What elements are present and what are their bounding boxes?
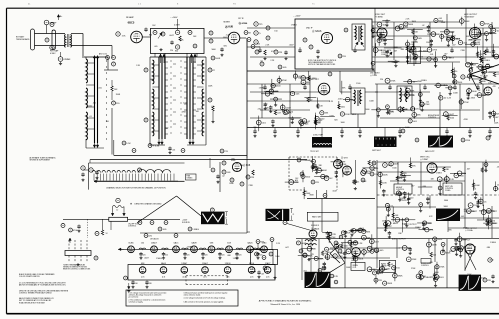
svg-text:Ⓐ 6AU6: Ⓐ 6AU6 — [312, 29, 322, 33]
svg-text:A PHOTOFACT STANDARD NOTATI: A PHOTOFACT STANDARD NOTATION SCHEMATIC — [259, 300, 312, 303]
svg-text:100K: 100K — [383, 174, 388, 176]
svg-text:390K: 390K — [398, 276, 403, 278]
svg-text:25: 25 — [225, 217, 227, 219]
svg-text:470K: 470K — [282, 80, 287, 82]
svg-text:680: 680 — [351, 260, 354, 262]
svg-text:33K: 33K — [324, 113, 328, 115]
svg-text:4.5MH: 4.5MH — [174, 25, 180, 27]
svg-text:220: 220 — [170, 50, 173, 52]
svg-text:270K: 270K — [411, 268, 416, 270]
svg-text:220: 220 — [260, 255, 263, 257]
svg-text:1 MEG: 1 MEG — [291, 25, 297, 27]
svg-text:2 MEG: 2 MEG — [445, 190, 451, 192]
svg-text:.0047: .0047 — [332, 190, 337, 192]
svg-text:2.2K: 2.2K — [450, 179, 455, 181]
svg-text:(4.7): (4.7) — [250, 277, 254, 279]
svg-text:←+140V: ←+140V — [293, 16, 301, 18]
svg-text:4.5MC: 4.5MC — [50, 53, 56, 55]
svg-text:68K: 68K — [436, 34, 440, 36]
svg-text:SOURCE: SOURCE — [182, 222, 190, 224]
svg-text:RATIO DET: RATIO DET — [312, 216, 322, 219]
svg-text:5600: 5600 — [444, 206, 448, 208]
svg-text:680: 680 — [319, 120, 322, 122]
svg-text:6AU8: 6AU8 — [161, 262, 166, 265]
svg-text:RF AMP: RF AMP — [126, 16, 134, 19]
svg-text:VIEWED IN SERVICE POSITION: VIEWED IN SERVICE POSITION — [63, 267, 88, 269]
svg-text:470K: 470K — [471, 97, 476, 99]
svg-text:1000: 1000 — [468, 248, 472, 250]
svg-text:150: 150 — [141, 243, 144, 245]
svg-text:CHANNEL SELECTOR SWITCH SHOWN: CHANNEL SELECTOR SWITCH SHOWN IN CHANNEL… — [106, 187, 166, 190]
svg-text:150: 150 — [257, 43, 260, 45]
svg-text:.047: .047 — [393, 51, 397, 53]
svg-text:CONTROL: CONTROL — [428, 117, 436, 119]
svg-text:1000: 1000 — [275, 256, 279, 258]
svg-text:470K: 470K — [464, 119, 469, 121]
svg-text:68K: 68K — [411, 90, 415, 92]
svg-text:100K: 100K — [322, 170, 327, 172]
svg-text:(4.7): (4.7) — [266, 277, 270, 279]
svg-text:.005: .005 — [154, 46, 158, 48]
svg-text:47K: 47K — [279, 52, 283, 54]
svg-text:1500: 1500 — [382, 221, 386, 223]
svg-text:1500: 1500 — [426, 42, 430, 44]
svg-text:220: 220 — [222, 255, 225, 257]
svg-text:120K: 120K — [329, 249, 334, 251]
svg-text:.0047: .0047 — [286, 107, 292, 109]
svg-text:390K: 390K — [449, 251, 454, 253]
svg-text:150: 150 — [274, 31, 277, 33]
svg-text:120K: 120K — [468, 39, 473, 41]
svg-text:1000: 1000 — [423, 51, 427, 53]
svg-text:.0047: .0047 — [289, 44, 294, 46]
svg-text:470K: 470K — [463, 228, 468, 230]
svg-text:47K: 47K — [288, 112, 292, 114]
svg-text:1 MEG: 1 MEG — [233, 258, 239, 260]
svg-text:TERM BOARD: TERM BOARD — [16, 38, 30, 41]
svg-text:HORIZ OUT: HORIZ OUT — [461, 240, 470, 242]
svg-text:220: 220 — [187, 255, 190, 257]
svg-text:.005: .005 — [172, 150, 175, 152]
svg-text:12AU7: 12AU7 — [202, 262, 208, 265]
svg-text:.005: .005 — [98, 87, 102, 89]
svg-text:NOTE: THE ELECTROLYTIC UNITS I: NOTE: THE ELECTROLYTIC UNITS IN — [308, 60, 337, 62]
svg-text:680: 680 — [327, 252, 330, 254]
svg-text:100: 100 — [135, 283, 138, 285]
svg-text:150: 150 — [490, 259, 493, 261]
svg-text:1 MEG: 1 MEG — [310, 78, 317, 80]
svg-text:100K: 100K — [394, 164, 399, 166]
svg-text:.047: .047 — [261, 274, 264, 276]
svg-text:470K: 470K — [264, 107, 269, 109]
svg-text:820: 820 — [486, 64, 489, 66]
svg-text:680: 680 — [487, 247, 490, 249]
svg-text:390K: 390K — [387, 283, 392, 285]
svg-text:.02: .02 — [260, 61, 263, 63]
svg-text:6CB6: 6CB6 — [128, 243, 134, 245]
svg-text:390K: 390K — [475, 44, 480, 46]
svg-text:1 MEG: 1 MEG — [484, 60, 491, 62]
svg-text:100K: 100K — [453, 92, 458, 94]
svg-text:680: 680 — [240, 165, 243, 167]
svg-text:.047: .047 — [411, 185, 415, 187]
svg-text:.01: .01 — [211, 106, 214, 108]
svg-text:1 MEG: 1 MEG — [192, 229, 199, 231]
svg-text:©Howard W. Sams & Co., Inc. 19: ©Howard W. Sams & Co., Inc. 1956 — [270, 303, 300, 306]
svg-text:.02: .02 — [478, 90, 481, 92]
svg-text:820: 820 — [473, 189, 476, 191]
svg-text:1 MEG: 1 MEG — [454, 38, 461, 40]
svg-text:220: 220 — [205, 255, 208, 257]
svg-text:TUNING: TUNING — [187, 177, 194, 179]
svg-text:820: 820 — [253, 127, 256, 129]
svg-text:12K: 12K — [334, 276, 338, 278]
svg-text:.0047: .0047 — [223, 37, 228, 39]
svg-text:1 MEG: 1 MEG — [259, 88, 265, 90]
svg-text:6AU8: 6AU8 — [191, 242, 197, 245]
svg-text:(4.7): (4.7) — [141, 277, 145, 279]
svg-text:.047: .047 — [452, 45, 456, 47]
svg-text:1ST IF: 1ST IF — [238, 18, 244, 20]
svg-text:1500: 1500 — [88, 105, 92, 107]
svg-text:100K: 100K — [215, 58, 220, 60]
svg-text:330: 330 — [149, 283, 152, 285]
svg-text:.01: .01 — [89, 116, 92, 118]
svg-text:2ND VIDEO: 2ND VIDEO — [370, 73, 380, 75]
svg-text:100K: 100K — [358, 259, 363, 261]
svg-text:120K: 120K — [412, 259, 417, 261]
svg-text:120K: 120K — [342, 164, 347, 166]
svg-text:1500: 1500 — [392, 167, 396, 169]
svg-text:.0047: .0047 — [144, 257, 149, 259]
svg-text:.0047: .0047 — [343, 246, 349, 248]
svg-text:CONTROL: CONTROL — [396, 189, 404, 191]
svg-text:5600: 5600 — [211, 49, 215, 51]
svg-text:HORIZ: HORIZ — [381, 263, 386, 265]
svg-text:.001: .001 — [430, 54, 434, 56]
svg-text:220: 220 — [165, 255, 168, 257]
svg-text:22K: 22K — [332, 234, 336, 236]
svg-text:150: 150 — [165, 98, 168, 100]
svg-text:1 MEG: 1 MEG — [424, 277, 431, 279]
svg-text:1000: 1000 — [340, 122, 344, 124]
svg-text:21: 21 — [293, 214, 295, 216]
svg-text:1 MEG: 1 MEG — [436, 173, 442, 175]
svg-text:470K: 470K — [391, 81, 396, 83]
svg-text:2.2K: 2.2K — [358, 243, 363, 245]
svg-text:1 MEG: 1 MEG — [187, 247, 193, 249]
svg-text:150: 150 — [447, 57, 450, 59]
svg-text:150: 150 — [106, 121, 109, 123]
svg-text:150: 150 — [426, 101, 429, 103]
svg-text:390K: 390K — [179, 39, 184, 41]
svg-text:6AQ5: 6AQ5 — [247, 242, 253, 245]
svg-text:220: 220 — [380, 79, 383, 81]
svg-text:.047: .047 — [495, 117, 499, 119]
svg-text:820: 820 — [334, 120, 337, 122]
svg-text:AUDIO OUTPUT: AUDIO OUTPUT — [392, 238, 406, 241]
svg-text:.01: .01 — [151, 80, 154, 82]
svg-text:12: 12 — [116, 210, 118, 212]
svg-text:(4.7): (4.7) — [162, 277, 166, 279]
svg-text:.047: .047 — [165, 128, 169, 130]
svg-text:1500: 1500 — [356, 83, 360, 85]
svg-text:470K: 470K — [485, 23, 490, 25]
svg-text:220: 220 — [258, 108, 261, 110]
svg-text:100K: 100K — [346, 267, 351, 269]
svg-text:820: 820 — [224, 45, 227, 47]
svg-text:1000: 1000 — [405, 127, 409, 129]
svg-text:100K: 100K — [475, 185, 480, 187]
svg-text:.0047: .0047 — [480, 277, 485, 279]
svg-text:.0047: .0047 — [449, 114, 455, 116]
svg-text:68K: 68K — [366, 231, 370, 233]
svg-text:.047: .047 — [346, 172, 350, 174]
svg-text:SHOWN IN SUPPLEMENT: SHOWN IN SUPPLEMENT — [30, 160, 51, 162]
svg-text:390K: 390K — [441, 22, 446, 24]
svg-text:390K: 390K — [417, 81, 422, 83]
svg-text:CONTROL: CONTROL — [421, 265, 429, 267]
svg-text:220: 220 — [239, 255, 242, 257]
svg-text:DENOTES CHASSIS GROUND: DENOTES CHASSIS GROUND — [135, 203, 163, 206]
svg-text:1 MEG: 1 MEG — [415, 227, 421, 229]
svg-text:390K: 390K — [116, 94, 121, 96]
svg-text:390K: 390K — [231, 160, 236, 162]
svg-text:220: 220 — [143, 255, 146, 257]
svg-text:.0047: .0047 — [301, 243, 307, 245]
svg-text:6BC5: 6BC5 — [128, 21, 135, 25]
svg-text:.001: .001 — [92, 102, 96, 104]
svg-text:68K: 68K — [417, 115, 421, 117]
svg-text:390K: 390K — [465, 21, 470, 23]
svg-text:.02: .02 — [422, 25, 425, 27]
svg-text:1 MEG: 1 MEG — [156, 258, 162, 260]
svg-text:5600: 5600 — [365, 109, 369, 111]
svg-text:470K: 470K — [338, 256, 343, 258]
svg-text:100K: 100K — [494, 122, 499, 124]
svg-text:.047: .047 — [466, 168, 470, 170]
svg-text:ABOVE OR STANDARD IF TOLERANCE: ABOVE OR STANDARD IF TOLERANCE (SEE NOTE… — [19, 284, 66, 287]
svg-text:220: 220 — [304, 191, 307, 193]
svg-text:VIDEO OUTPUT: VIDEO OUTPUT — [481, 72, 494, 74]
svg-text:MIXER: MIXER — [224, 21, 231, 23]
svg-text:1 MEG: 1 MEG — [350, 114, 356, 116]
svg-text:120K: 120K — [272, 85, 277, 87]
svg-text:COLOR OR APPLICATION: COLOR OR APPLICATION — [19, 275, 40, 278]
svg-text:ANT COIL: ANT COIL — [99, 53, 107, 56]
svg-text:←+140V: ←+140V — [170, 17, 178, 19]
svg-text:470K: 470K — [181, 111, 186, 113]
svg-text:CONTROL: CONTROL — [400, 200, 408, 202]
svg-text:270K: 270K — [432, 50, 437, 52]
svg-text:TP12 3 VPP: TP12 3 VPP — [310, 151, 319, 153]
svg-text:.047: .047 — [264, 104, 268, 106]
svg-text:SOUND IF: SOUND IF — [311, 225, 319, 227]
svg-text:.02: .02 — [222, 176, 225, 178]
svg-text:12AU7: 12AU7 — [151, 242, 158, 245]
svg-text:100K: 100K — [369, 101, 374, 103]
svg-text:.001: .001 — [461, 216, 465, 218]
svg-text:47K: 47K — [251, 177, 255, 179]
svg-text:1 MEG: 1 MEG — [391, 223, 398, 225]
svg-text:1.5K: 1.5K — [126, 143, 131, 145]
svg-text:270K: 270K — [440, 267, 445, 269]
svg-text:100K: 100K — [432, 245, 437, 247]
svg-text:.005: .005 — [460, 283, 464, 285]
svg-text:COIL: COIL — [353, 267, 357, 269]
svg-text:820: 820 — [149, 35, 152, 37]
svg-text:1ST AUDIO: 1ST AUDIO — [150, 238, 159, 241]
svg-text:.047: .047 — [285, 247, 289, 249]
svg-text:100K: 100K — [208, 86, 213, 88]
svg-text:390K: 390K — [412, 21, 417, 23]
svg-text:100K: 100K — [375, 251, 380, 253]
svg-text:120K: 120K — [382, 182, 387, 184]
svg-text:.001: .001 — [303, 271, 307, 273]
svg-text:VERT MULT: VERT MULT — [372, 150, 381, 152]
svg-text:270K: 270K — [249, 185, 254, 187]
svg-text:.0047: .0047 — [169, 35, 174, 37]
svg-text:820: 820 — [175, 50, 178, 52]
svg-text:CONTROL TERMED FROM EACH CHECK: CONTROL TERMED FROM EACH CHECK — [19, 292, 53, 295]
svg-text:390K: 390K — [229, 183, 234, 185]
svg-text:1500: 1500 — [324, 257, 328, 259]
svg-text:12BQ6: 12BQ6 — [225, 263, 231, 265]
svg-text:150: 150 — [335, 246, 338, 248]
svg-text:47MMF: 47MMF — [63, 59, 71, 61]
svg-text:1500: 1500 — [409, 197, 413, 199]
svg-text:REMOTE CONTROL CONNECTIONS: REMOTE CONTROL CONNECTIONS — [63, 269, 90, 271]
svg-text:6S8: 6S8 — [141, 263, 144, 265]
svg-text:Ⓐ 6U8: Ⓐ 6U8 — [225, 25, 233, 29]
svg-text:270K: 270K — [362, 181, 367, 183]
svg-text:12BH7: 12BH7 — [181, 263, 187, 265]
svg-text:(4.7): (4.7) — [203, 277, 207, 279]
svg-text:FINE: FINE — [187, 176, 190, 178]
svg-text:CONTROL: CONTROL — [128, 226, 136, 228]
svg-text:.047: .047 — [463, 209, 467, 211]
svg-text:ROAD BROKE AT BOTTOM SIDE: ROAD BROKE AT BOTTOM SIDE — [19, 301, 46, 304]
svg-text:270K: 270K — [464, 102, 469, 104]
svg-text:.0047: .0047 — [338, 99, 343, 101]
svg-text:270K: 270K — [425, 104, 430, 106]
svg-text:.005: .005 — [438, 18, 442, 20]
svg-text:1 MEG: 1 MEG — [490, 242, 496, 244]
svg-text:100K: 100K — [467, 274, 472, 276]
svg-text:680: 680 — [466, 36, 469, 38]
svg-text:5600: 5600 — [340, 253, 344, 255]
svg-text:1500: 1500 — [183, 102, 187, 104]
svg-text:390K: 390K — [309, 195, 314, 197]
svg-text:1000: 1000 — [371, 170, 375, 172]
svg-text:5600: 5600 — [444, 200, 448, 202]
svg-text:270K: 270K — [461, 50, 466, 52]
svg-text:.047: .047 — [444, 53, 448, 55]
svg-text:220: 220 — [365, 172, 368, 174]
